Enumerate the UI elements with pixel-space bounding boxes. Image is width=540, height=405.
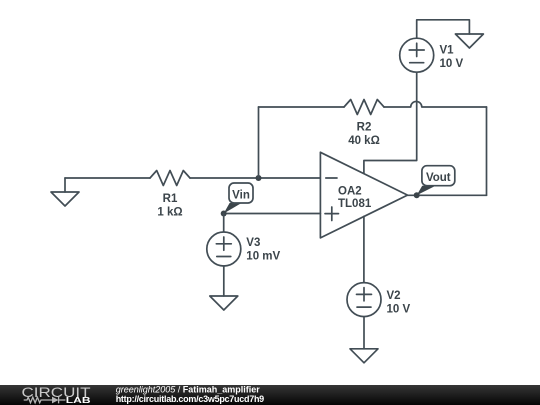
svg-text:R2: R2	[357, 122, 372, 134]
wire R1 to op-amp inverting input	[190, 177, 320, 179]
resistor R1	[150, 171, 190, 219]
voltage source V2	[347, 283, 410, 317]
wire V1 bottom to op-amp positive supply pin	[364, 72, 417, 174]
svg-text:10 V: 10 V	[387, 304, 411, 316]
svg-text:1 kΩ: 1 kΩ	[157, 207, 182, 219]
logo resistor-diode glyph	[24, 396, 66, 403]
svg-text:Vout: Vout	[426, 172, 451, 184]
svg-text:http://circuitlab.com/c3w5pc7u: http://circuitlab.com/c3w5pc7ucd7h9	[116, 393, 265, 403]
wire op-amp negative supply pin to V2	[363, 216, 365, 282]
svg-text:V1: V1	[440, 45, 455, 57]
node Vout junction dot	[414, 192, 420, 198]
wire op-amp noninverting input	[224, 213, 321, 215]
wire feedback right vertical	[486, 107, 488, 195]
svg-text:TL081: TL081	[338, 198, 372, 210]
wire op-amp output to Vout node	[408, 194, 417, 196]
ground GND4 (V2)	[350, 349, 378, 363]
svg-text:40 kΩ: 40 kΩ	[348, 135, 380, 147]
wire V1 top to GND2	[417, 20, 470, 38]
flag Vout	[417, 166, 455, 196]
svg-text:LAB: LAB	[66, 395, 91, 405]
svg-text:R1: R1	[163, 193, 178, 205]
ground GND1 (input left)	[51, 178, 79, 206]
footer bar	[0, 385, 540, 405]
flag Vin	[224, 183, 253, 214]
wire V2 bottom to GND4	[363, 317, 365, 349]
wire R2 left segment	[259, 106, 345, 108]
wire V3 bottom to GND3	[223, 266, 225, 296]
ground GND3 (V3)	[210, 296, 238, 310]
voltage source V1	[400, 38, 464, 72]
svg-text:10 V: 10 V	[440, 58, 464, 70]
op-amp OA2 (TL081)	[320, 152, 407, 238]
node Vin junction dot	[221, 211, 227, 217]
wire input net: GND1 to R1	[65, 177, 150, 179]
wire Vin node down to V3	[223, 214, 225, 233]
svg-text:10 mV: 10 mV	[246, 251, 280, 263]
wire node A up to R2 net	[258, 107, 260, 178]
svg-text:OA2: OA2	[338, 186, 362, 198]
svg-text:V3: V3	[246, 237, 260, 249]
voltage source V3	[207, 232, 281, 266]
svg-text:Vin: Vin	[232, 189, 250, 201]
wire feedback bottom to output node	[417, 194, 487, 196]
wire R2 right segment with hop over V1 wire	[384, 101, 487, 107]
node A junction dot	[256, 175, 262, 181]
ground GND2 (V1)	[455, 34, 483, 48]
resistor R2	[344, 100, 384, 148]
svg-text:V2: V2	[387, 290, 401, 302]
